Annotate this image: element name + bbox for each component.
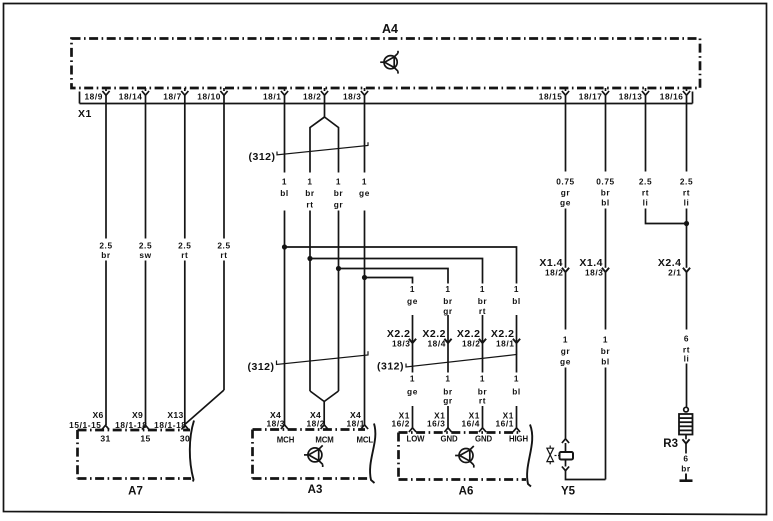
- svg-text:16/1: 16/1: [495, 419, 514, 429]
- svg-text:X1: X1: [78, 108, 92, 120]
- X1 pin 18/16: [683, 88, 690, 104]
- X1 pin 18/15: [562, 88, 569, 104]
- svg-text:li: li: [684, 198, 690, 208]
- svg-text:bl: bl: [512, 387, 521, 397]
- transfer wire br rt: [310, 259, 483, 284]
- svg-text:gr: gr: [334, 200, 344, 210]
- svg-text:MCL: MCL: [357, 436, 374, 445]
- svg-text:18/3: 18/3: [392, 339, 411, 349]
- Y5 chevron top: [562, 439, 569, 443]
- svg-text:A7: A7: [128, 486, 143, 498]
- svg-text:2.5: 2.5: [99, 241, 112, 251]
- A3 terminal MCM: [321, 425, 328, 429]
- svg-text:rt: rt: [479, 396, 486, 406]
- svg-text:1: 1: [410, 284, 415, 294]
- svg-text:2.5: 2.5: [139, 241, 152, 251]
- A7 torn edge: [190, 421, 194, 482]
- sensor A6 box: [399, 433, 527, 480]
- X1 pin 18/13: [642, 88, 649, 104]
- svg-text:gr: gr: [443, 306, 453, 316]
- Y5 bottom loop wire: [566, 460, 606, 480]
- svg-text:br: br: [601, 346, 611, 356]
- wire 18/17 br bl: [605, 104, 607, 480]
- ground for R3: [680, 474, 693, 481]
- A6 terminal GND: [479, 428, 486, 432]
- wire 18/15 gr ge to Y5: [565, 104, 567, 453]
- connector X2.2 18/2: [479, 339, 486, 343]
- svg-text:gr: gr: [561, 346, 571, 356]
- transfer wire bl to HIGH column: [285, 247, 517, 283]
- svg-text:15/1-15: 15/1-15: [69, 420, 101, 430]
- control module A3 box: [253, 430, 370, 479]
- svg-text:6: 6: [684, 334, 689, 344]
- svg-text:bl: bl: [601, 357, 610, 367]
- svg-text:bl: bl: [601, 198, 610, 208]
- svg-text:18/2: 18/2: [545, 268, 564, 278]
- solenoid valve Y5: [560, 452, 574, 460]
- svg-text:15: 15: [140, 434, 150, 444]
- connector X1.4 18/3: [602, 268, 609, 272]
- A6 terminal HIGH: [513, 428, 520, 432]
- svg-text:1: 1: [307, 177, 312, 187]
- ECU symbol in A4: [380, 51, 398, 74]
- svg-text:(312): (312): [247, 361, 274, 373]
- svg-text:18/2: 18/2: [303, 92, 322, 102]
- svg-text:18/10: 18/10: [197, 92, 221, 102]
- svg-text:18/7: 18/7: [163, 92, 182, 102]
- svg-text:1: 1: [480, 284, 485, 294]
- svg-text:rt: rt: [683, 188, 690, 198]
- svg-text:16/4: 16/4: [461, 419, 480, 429]
- svg-text:ge: ge: [407, 296, 418, 306]
- svg-text:R3: R3: [663, 438, 678, 450]
- connector X1.4 18/2: [562, 268, 569, 272]
- svg-text:br: br: [478, 296, 488, 306]
- svg-text:18/13: 18/13: [619, 92, 643, 102]
- wire 18/3 ge to A3 MCL: [364, 104, 366, 426]
- svg-text:gr: gr: [561, 188, 571, 198]
- ECU symbol in A3: [304, 445, 323, 467]
- wire 18/1 bl to A3 MCH: [284, 104, 286, 426]
- X1 pin 18/14: [142, 88, 149, 104]
- transfer wire ge: [365, 278, 413, 284]
- X1 pin 18/7: [181, 88, 188, 104]
- A7 terminal 30: [181, 425, 188, 429]
- wire 18/7 to A7:30: [184, 104, 186, 426]
- svg-text:18/1-18: 18/1-18: [154, 420, 186, 430]
- connector X2.2 18/3: [409, 339, 416, 343]
- svg-text:18/17: 18/17: [579, 92, 603, 102]
- svg-text:Y5: Y5: [561, 486, 576, 498]
- svg-text:li: li: [684, 354, 690, 364]
- A6 torn edge: [527, 425, 532, 487]
- svg-text:1: 1: [445, 374, 450, 384]
- wire br gr branch: [338, 211, 340, 392]
- svg-text:16/3: 16/3: [427, 419, 446, 429]
- A6 terminal GND: [444, 428, 451, 432]
- svg-text:LOW: LOW: [407, 435, 426, 444]
- R3 chevron: [682, 439, 689, 443]
- svg-text:18/3: 18/3: [585, 268, 604, 278]
- svg-text:rt: rt: [181, 250, 188, 260]
- wire 18/9 to A7:31: [105, 104, 107, 426]
- connector strip X1: [80, 92, 693, 104]
- connector X2.4 2/1: [683, 268, 690, 272]
- svg-text:ge: ge: [560, 198, 571, 208]
- Y5 valve symbol: [547, 446, 560, 465]
- svg-text:18/2: 18/2: [306, 419, 325, 429]
- svg-text:18/1: 18/1: [496, 339, 515, 349]
- svg-text:1: 1: [603, 335, 608, 345]
- svg-text:bl: bl: [512, 296, 521, 306]
- svg-text:1: 1: [480, 374, 485, 384]
- svg-text:rt: rt: [479, 306, 486, 316]
- A3 terminal MCL: [361, 425, 368, 429]
- svg-text:br: br: [305, 188, 315, 198]
- X1 pin 18/9: [102, 88, 109, 104]
- junction ge: [362, 275, 366, 279]
- svg-text:1: 1: [563, 335, 568, 345]
- svg-text:rt: rt: [642, 188, 649, 198]
- sensor column br gr / GND: [447, 283, 449, 428]
- A7 terminal 15: [142, 425, 149, 429]
- svg-text:0.75: 0.75: [596, 177, 615, 187]
- wire 18/16 rt li: [686, 104, 688, 408]
- svg-text:18/1-18: 18/1-18: [115, 420, 147, 430]
- wire 18/10 diagonal to A7:30: [185, 104, 224, 425]
- svg-text:18/4: 18/4: [427, 339, 446, 349]
- svg-text:gr: gr: [443, 396, 453, 406]
- svg-text:18/9: 18/9: [84, 92, 103, 102]
- connector X2.2 18/1: [513, 339, 520, 343]
- wire br rt branch: [309, 211, 311, 392]
- svg-text:li: li: [643, 198, 649, 208]
- svg-text:1: 1: [514, 284, 519, 294]
- X1 pin 18/3: [361, 88, 368, 104]
- svg-text:2.5: 2.5: [680, 177, 693, 187]
- svg-text:30: 30: [180, 434, 190, 444]
- sensor column br rt / GND: [482, 283, 484, 428]
- ECU symbol in A6: [455, 446, 474, 468]
- svg-text:GND: GND: [440, 435, 457, 444]
- svg-text:bl: bl: [280, 188, 289, 198]
- svg-text:X6: X6: [92, 410, 103, 420]
- svg-text:18/1: 18/1: [346, 419, 365, 429]
- svg-text:2.5: 2.5: [178, 241, 191, 251]
- svg-text:1: 1: [410, 374, 415, 384]
- merge to MCM: [310, 391, 339, 425]
- svg-text:18/2: 18/2: [462, 339, 481, 349]
- svg-text:rt: rt: [306, 200, 313, 210]
- svg-text:18/15: 18/15: [539, 92, 563, 102]
- junction rt li: [684, 221, 688, 225]
- svg-text:16/2: 16/2: [391, 419, 410, 429]
- sensor column ge / LOW: [412, 283, 414, 428]
- svg-text:br: br: [443, 296, 453, 306]
- svg-text:(312): (312): [377, 361, 404, 373]
- wire 18/2 split: [310, 104, 339, 173]
- junction bl: [282, 245, 286, 249]
- svg-text:0.75: 0.75: [556, 177, 575, 187]
- A7 terminal 31: [102, 425, 109, 429]
- svg-text:MCM: MCM: [315, 436, 333, 445]
- Y5 chevron bottom: [562, 467, 569, 471]
- svg-text:A6: A6: [459, 486, 474, 498]
- svg-text:sw: sw: [139, 250, 151, 260]
- A3 terminal MCH: [281, 425, 288, 429]
- wire 18/14 to A7:15: [145, 104, 147, 426]
- wire 18/13 rt li: [646, 104, 687, 224]
- svg-text:18/1: 18/1: [263, 92, 282, 102]
- junction br gr: [336, 266, 340, 270]
- svg-text:HIGH: HIGH: [509, 435, 529, 444]
- svg-text:ge: ge: [560, 357, 571, 367]
- svg-text:X13: X13: [167, 410, 183, 420]
- svg-text:br: br: [601, 188, 611, 198]
- svg-text:6: 6: [683, 454, 688, 464]
- svg-text:ge: ge: [359, 188, 370, 198]
- svg-text:A3: A3: [308, 484, 323, 496]
- svg-text:1: 1: [282, 177, 287, 187]
- svg-text:2/1: 2/1: [668, 268, 681, 278]
- X1 pin 18/17: [602, 88, 609, 104]
- svg-text:GND: GND: [475, 435, 492, 444]
- A3 torn edge: [370, 424, 375, 484]
- resistor R3: [684, 407, 689, 412]
- svg-text:br: br: [334, 188, 344, 198]
- svg-text:18/3: 18/3: [343, 92, 362, 102]
- svg-text:2.5: 2.5: [639, 177, 652, 187]
- svg-text:18/16: 18/16: [660, 92, 684, 102]
- svg-text:br: br: [681, 464, 691, 474]
- A6 terminal LOW: [409, 428, 416, 432]
- svg-text:2.5: 2.5: [217, 241, 230, 251]
- svg-text:1: 1: [336, 177, 341, 187]
- control unit A4 box: [72, 39, 701, 89]
- svg-text:X9: X9: [132, 410, 143, 420]
- svg-text:ge: ge: [407, 387, 418, 397]
- svg-text:(312): (312): [248, 151, 275, 163]
- svg-text:br: br: [101, 250, 111, 260]
- junction br rt: [308, 256, 312, 260]
- svg-text:rt: rt: [220, 250, 227, 260]
- X1 pin 18/2: [321, 88, 328, 104]
- svg-text:MCH: MCH: [277, 436, 295, 445]
- svg-text:1: 1: [514, 374, 519, 384]
- X1 pin 18/1: [281, 88, 288, 104]
- sensor column bl / HIGH: [516, 283, 518, 428]
- svg-text:A4: A4: [382, 22, 398, 36]
- svg-text:18/3: 18/3: [266, 419, 285, 429]
- svg-text:31: 31: [100, 434, 110, 444]
- svg-text:1: 1: [362, 177, 367, 187]
- fuse box A7: [78, 430, 192, 479]
- transfer wire br gr: [339, 269, 449, 284]
- connector X2.2 18/4: [444, 339, 451, 343]
- svg-text:18/14: 18/14: [119, 92, 143, 102]
- X1 pin 18/10: [220, 88, 227, 104]
- svg-text:1: 1: [445, 284, 450, 294]
